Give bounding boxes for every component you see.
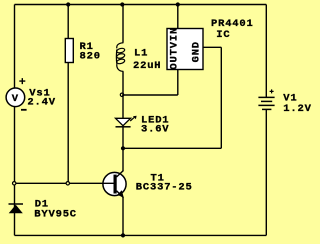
transistor collector diagonal xyxy=(117,171,124,178)
wire VIN vertical xyxy=(177,5,179,29)
svg-text:V: V xyxy=(12,93,19,105)
LED1 cathode bar xyxy=(116,126,131,128)
svg-text:820: 820 xyxy=(80,50,101,62)
svg-text:3.6V: 3.6V xyxy=(141,123,169,135)
wire R1 bottom xyxy=(67,63,69,184)
wire GND horizontal to LED chain xyxy=(123,147,221,149)
wire R1 top xyxy=(67,5,69,39)
battery V1 plus sign xyxy=(270,89,274,93)
battery V1 plate 3 long xyxy=(258,104,274,106)
wire emitter to bottom rail xyxy=(122,197,124,235)
svg-text:1.2V: 1.2V xyxy=(283,103,311,115)
node dot top L1 xyxy=(120,2,124,6)
wire right rail upper (battery branch) xyxy=(265,5,267,98)
svg-text:GND: GND xyxy=(191,41,203,62)
transistor emitter arrow xyxy=(117,190,124,198)
wire OUT vertical xyxy=(177,70,179,96)
wire L1 bottom to LED xyxy=(122,71,124,118)
op IC box U1 PR4401 xyxy=(167,29,203,70)
node dot top VIN xyxy=(176,2,180,6)
svg-text:OUT: OUT xyxy=(169,48,181,69)
transistor base bar xyxy=(114,175,117,194)
transistor T1 circle xyxy=(103,172,126,195)
wire bottom rail xyxy=(15,234,267,236)
battery V1 plate 1 long xyxy=(258,96,274,98)
diode D1 triangle xyxy=(9,205,23,214)
battery V1 plate 2 xyxy=(261,100,272,102)
svg-text:IC: IC xyxy=(216,29,230,41)
wire GND horizontal from IC xyxy=(203,46,221,48)
svg-text:VIN: VIN xyxy=(169,27,181,48)
node dot bottom emitter xyxy=(121,233,125,237)
wire OUT horizontal xyxy=(122,94,178,96)
wire right rail lower (battery branch) xyxy=(265,109,267,235)
resistor R1 xyxy=(65,39,73,63)
node ring junction L1/OUT xyxy=(120,93,123,96)
node junction dot LED chain / GND xyxy=(121,146,125,150)
svg-text:22uH: 22uH xyxy=(133,60,161,72)
Vs1 minus sign xyxy=(21,109,27,111)
svg-text:L1: L1 xyxy=(134,47,148,59)
inductor L1 xyxy=(116,43,125,72)
wire GND vertical xyxy=(220,47,222,148)
LED1 diode triangle xyxy=(116,118,131,125)
wire LED to collector xyxy=(122,127,124,171)
voltage source Vs1 circle xyxy=(6,88,25,107)
Vs1 plus sign xyxy=(19,78,25,84)
node ring base/left rail xyxy=(13,182,16,185)
wire top rail xyxy=(15,4,267,6)
transistor emitter diagonal xyxy=(117,191,124,198)
wire base horizontal xyxy=(15,182,114,184)
svg-text:BYV95C: BYV95C xyxy=(34,209,77,221)
diode D1 cathode bar xyxy=(9,203,24,205)
node dot top R1 xyxy=(66,2,70,6)
battery V1 plate 4 short xyxy=(262,108,271,110)
svg-text:2.4V: 2.4V xyxy=(27,97,55,109)
wire L1 top xyxy=(122,5,124,43)
LED1 arrow xyxy=(130,117,134,121)
wire left rail xyxy=(14,5,16,236)
node ring base/R1 xyxy=(66,182,69,185)
svg-text:BC337-25: BC337-25 xyxy=(136,181,193,193)
